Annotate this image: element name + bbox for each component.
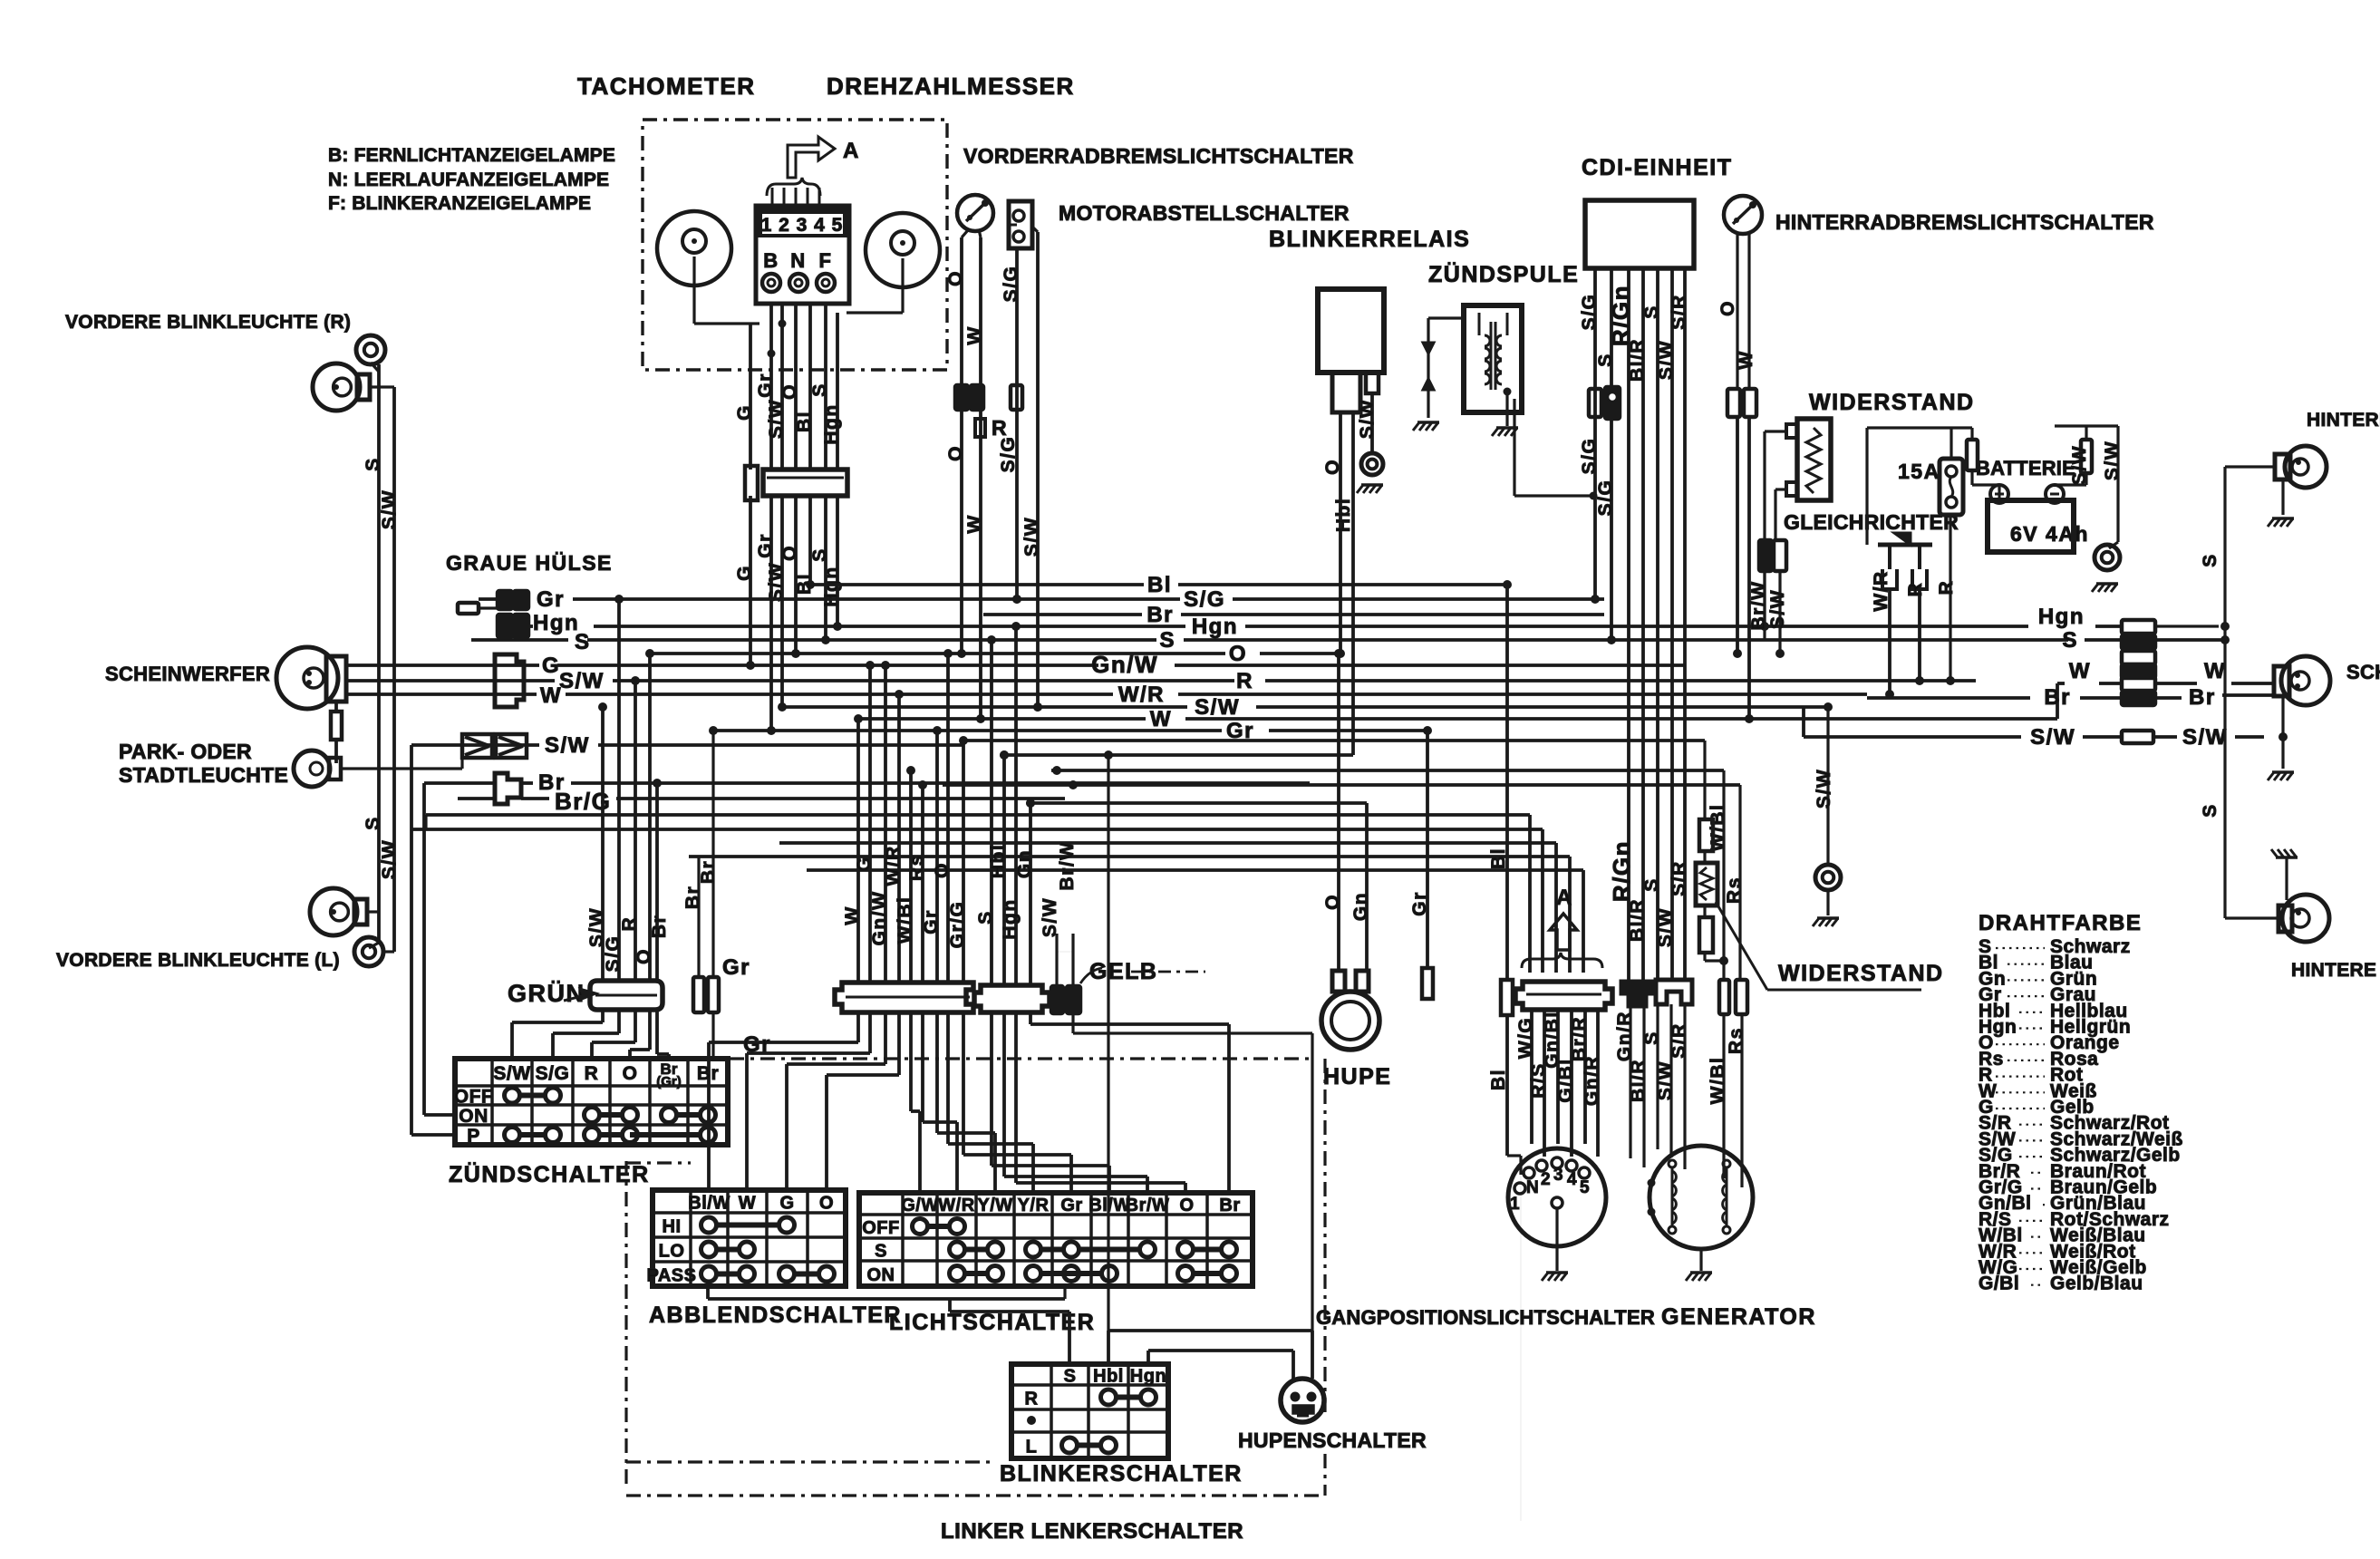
- svg-text:Hgn: Hgn: [1000, 898, 1021, 939]
- svg-text:R/Gn: R/Gn: [1608, 840, 1635, 902]
- svg-text:O: O: [1229, 642, 1247, 666]
- svg-text:R: R: [585, 1063, 599, 1084]
- svg-text:W: W: [739, 1194, 756, 1214]
- svg-text:Br: Br: [682, 886, 703, 909]
- svg-text:S/G: S/G: [998, 436, 1019, 473]
- svg-text:O: O: [1179, 1196, 1194, 1215]
- svg-text:O: O: [623, 1063, 638, 1084]
- svg-text:1: 1: [1510, 1195, 1520, 1214]
- svg-text:N: N: [790, 249, 806, 272]
- svg-text:S/W: S/W: [2182, 725, 2228, 750]
- svg-text:Gr: Gr: [1060, 1196, 1082, 1215]
- svg-text:Hgn: Hgn: [821, 403, 842, 444]
- svg-text:G: G: [779, 1194, 794, 1214]
- svg-text:O: O: [1717, 300, 1738, 316]
- svg-text:DRAHTFARBE: DRAHTFARBE: [1978, 911, 2142, 935]
- svg-text:G: G: [734, 404, 755, 421]
- svg-text:S/R: S/R: [1669, 860, 1689, 896]
- svg-text:Br/W: Br/W: [1057, 841, 1078, 891]
- svg-text:Gn/W: Gn/W: [1091, 651, 1158, 678]
- svg-text:SCHE: SCHE: [2346, 661, 2380, 683]
- svg-text:S: S: [809, 547, 830, 562]
- svg-text:G: G: [854, 856, 875, 872]
- svg-text:Gr: Gr: [921, 909, 942, 934]
- svg-text:S: S: [1641, 305, 1662, 319]
- svg-text:F: BLINKERANZEIGELAMPE: F: BLINKERANZEIGELAMPE: [328, 193, 591, 214]
- svg-text:S: S: [363, 816, 383, 830]
- svg-text:Y/R: Y/R: [1018, 1196, 1050, 1215]
- svg-text:Gr: Gr: [755, 373, 776, 398]
- svg-text:2: 2: [1541, 1170, 1551, 1189]
- svg-text:WIDERSTAND: WIDERSTAND: [1809, 390, 1975, 415]
- svg-text:Gr: Gr: [755, 533, 776, 558]
- svg-text:4: 4: [1567, 1170, 1577, 1189]
- svg-text:R: R: [1025, 1390, 1039, 1409]
- svg-text:S/W: S/W: [493, 1063, 530, 1084]
- svg-text:R: R: [619, 916, 640, 932]
- svg-text:S/W: S/W: [2069, 445, 2090, 485]
- svg-text:3: 3: [1553, 1166, 1563, 1185]
- svg-text:Bl: Bl: [794, 411, 815, 432]
- svg-text:S: S: [2062, 628, 2078, 653]
- svg-text:O: O: [945, 445, 966, 461]
- svg-text:G: G: [734, 565, 755, 581]
- svg-text:O: O: [1322, 894, 1343, 910]
- svg-text:G/W: G/W: [901, 1196, 939, 1215]
- svg-text:BLINKERSCHALTER: BLINKERSCHALTER: [1000, 1461, 1243, 1486]
- svg-text:S: S: [2200, 803, 2220, 818]
- svg-text:GELB: GELB: [1089, 959, 1157, 984]
- svg-text:HINTERRADBREMSLICHTSCHALTER: HINTERRADBREMSLICHTSCHALTER: [1775, 210, 2154, 234]
- svg-text:Br: Br: [1146, 603, 1174, 627]
- svg-text:Bl/R: Bl/R: [1627, 338, 1648, 382]
- svg-text:S: S: [875, 1242, 887, 1262]
- svg-text:S: S: [1595, 353, 1616, 367]
- svg-text:Gr: Gr: [743, 1032, 771, 1057]
- svg-text:HI: HI: [663, 1217, 682, 1237]
- svg-text:Gn/R: Gn/R: [1582, 1055, 1602, 1106]
- svg-text:ZÜNDSCHALTER: ZÜNDSCHALTER: [449, 1161, 650, 1187]
- svg-text:VORDERRADBREMSLICHTSCHALTER: VORDERRADBREMSLICHTSCHALTER: [963, 144, 1354, 168]
- svg-text:Gr: Gr: [722, 955, 750, 980]
- svg-text:W/R: W/R: [1871, 570, 1891, 611]
- svg-text:GENERATOR: GENERATOR: [1661, 1304, 1816, 1330]
- svg-text:A: A: [1556, 886, 1573, 910]
- svg-text:S/G: S/G: [603, 935, 624, 973]
- svg-text:A: A: [843, 139, 860, 163]
- svg-text:GRÜN: GRÜN: [508, 980, 585, 1007]
- svg-text:PASS: PASS: [647, 1266, 697, 1286]
- svg-text:S/W: S/W: [545, 733, 590, 758]
- svg-text:ABBLENDSCHALTER: ABBLENDSCHALTER: [649, 1302, 902, 1328]
- svg-text:Br/R: Br/R: [1569, 1016, 1590, 1061]
- svg-text:Gr/G: Gr/G: [947, 901, 968, 949]
- svg-text:O: O: [1322, 459, 1343, 475]
- svg-text:Bl/R: Bl/R: [1627, 898, 1648, 942]
- svg-text:S/W: S/W: [379, 839, 400, 879]
- svg-text:MOTORABSTELLSCHALTER: MOTORABSTELLSCHALTER: [1059, 201, 1350, 225]
- svg-text:OFF: OFF: [862, 1218, 900, 1238]
- svg-text:Hgn: Hgn: [2038, 605, 2085, 629]
- svg-text:CDI-EINHEIT: CDI-EINHEIT: [1582, 155, 1733, 180]
- svg-text:Rs: Rs: [1726, 1027, 1746, 1054]
- svg-text:ON: ON: [867, 1265, 895, 1285]
- svg-text:S/G: S/G: [1579, 294, 1600, 331]
- svg-text:S/W: S/W: [1021, 517, 1042, 557]
- svg-text:S: S: [975, 910, 996, 925]
- svg-text:B: B: [763, 249, 779, 272]
- svg-text:VORDERE BLINKLEUCHTE (L): VORDERE BLINKLEUCHTE (L): [56, 950, 340, 971]
- svg-text:S/G: S/G: [1184, 587, 1225, 612]
- svg-text:S/W: S/W: [1357, 399, 1378, 439]
- svg-text:Hbl: Hbl: [1093, 1367, 1124, 1387]
- svg-text:Gr: Gr: [1409, 891, 1430, 916]
- svg-text:S/W: S/W: [1195, 695, 1240, 720]
- svg-text:W: W: [964, 325, 985, 344]
- svg-text:Hgn: Hgn: [1130, 1367, 1166, 1387]
- svg-text:W: W: [1150, 707, 1172, 731]
- svg-text:1 2 3 4 5: 1 2 3 4 5: [761, 215, 844, 236]
- svg-text:G/Bl: G/Bl: [1978, 1273, 2019, 1294]
- svg-text:ON: ON: [459, 1106, 489, 1127]
- svg-text:S/W: S/W: [379, 489, 400, 529]
- svg-text:L: L: [1026, 1438, 1038, 1457]
- svg-text:ZÜNDSPULE: ZÜNDSPULE: [1428, 261, 1579, 287]
- svg-text:Br: Br: [2189, 685, 2216, 710]
- svg-text:Gn/R: Gn/R: [1614, 1011, 1635, 1061]
- svg-text:BLINKERRELAIS: BLINKERRELAIS: [1269, 227, 1470, 252]
- svg-text:W: W: [842, 905, 863, 925]
- svg-text:S/W: S/W: [766, 399, 787, 439]
- svg-text:Hbl: Hbl: [988, 844, 1009, 878]
- svg-text:W: W: [2069, 659, 2091, 683]
- svg-text:15A: 15A: [1898, 460, 1940, 483]
- svg-text:S/R: S/R: [1669, 1022, 1689, 1059]
- svg-text:R/Gn: R/Gn: [1607, 285, 1634, 346]
- svg-text:P: P: [467, 1126, 480, 1147]
- svg-text:S/G: S/G: [536, 1063, 570, 1084]
- svg-text:Br: Br: [698, 860, 719, 884]
- svg-text:TACHOMETER: TACHOMETER: [577, 73, 756, 100]
- svg-text:Bl: Bl: [1488, 847, 1509, 869]
- svg-text:W/R: W/R: [883, 845, 904, 886]
- svg-text:Bl/R: Bl/R: [1628, 1059, 1649, 1102]
- svg-text:Br: Br: [2044, 685, 2071, 710]
- svg-text:O: O: [932, 862, 953, 878]
- svg-text:O: O: [634, 948, 654, 964]
- svg-text:6V 4Ah: 6V 4Ah: [2010, 522, 2089, 546]
- svg-text:R: R: [1905, 582, 1926, 597]
- svg-text:Br/W: Br/W: [1748, 581, 1769, 631]
- svg-text:W: W: [1736, 350, 1756, 369]
- svg-text:S: S: [363, 457, 383, 471]
- svg-text:O: O: [779, 545, 800, 561]
- svg-text:S/G: S/G: [1001, 266, 1021, 303]
- svg-text:B: FERNLICHTANZEIGELAMPE: B: FERNLICHTANZEIGELAMPE: [328, 145, 615, 166]
- svg-text:N: N: [1526, 1178, 1539, 1197]
- svg-text:S/W: S/W: [1655, 1060, 1676, 1100]
- svg-text:Br/W: Br/W: [1126, 1196, 1170, 1215]
- svg-text:BATTERIE: BATTERIE: [1976, 457, 2075, 479]
- svg-text:GANGPOSITIONSLICHTSCHALTER: GANGPOSITIONSLICHTSCHALTER: [1316, 1306, 1655, 1329]
- svg-text:HINTERE: HINTERE: [2291, 960, 2376, 981]
- svg-text:W/G: W/G: [1515, 1017, 1536, 1060]
- svg-text:S/W: S/W: [2102, 441, 2123, 480]
- svg-text:S/W: S/W: [1814, 769, 1834, 809]
- svg-text:S/R: S/R: [1669, 294, 1689, 330]
- svg-text:O: O: [779, 383, 800, 400]
- svg-text:F: F: [819, 249, 833, 272]
- svg-text:OFF: OFF: [454, 1087, 494, 1108]
- svg-text:PARK- ODER: PARK- ODER: [119, 740, 252, 763]
- svg-text:S/W: S/W: [766, 562, 787, 602]
- svg-text:DREHZAHLMESSER: DREHZAHLMESSER: [827, 73, 1075, 100]
- svg-text:Gr: Gr: [537, 587, 565, 612]
- svg-text:HUPE: HUPE: [1323, 1064, 1391, 1089]
- svg-text:Gn: Gn: [1350, 892, 1371, 921]
- svg-text:Hbl: Hbl: [1333, 498, 1354, 532]
- svg-text:W/R: W/R: [1118, 683, 1165, 707]
- svg-text:S: S: [1159, 628, 1175, 653]
- svg-text:S/W: S/W: [2030, 725, 2075, 750]
- svg-text:SCHEINWERFER: SCHEINWERFER: [105, 663, 270, 685]
- svg-text:W: W: [540, 683, 562, 708]
- svg-text:S: S: [1064, 1367, 1077, 1387]
- svg-text:Y/W: Y/W: [977, 1196, 1012, 1215]
- svg-text:S: S: [809, 382, 830, 397]
- svg-text:R: R: [1936, 580, 1957, 596]
- svg-text:VORDERE BLINKLEUCHTE (R): VORDERE BLINKLEUCHTE (R): [65, 312, 351, 333]
- svg-text:G/Bl: G/Bl: [1555, 1058, 1576, 1102]
- svg-text:Br: Br: [1219, 1196, 1240, 1215]
- svg-text:Hgn: Hgn: [1192, 615, 1238, 639]
- svg-text:Gn/W: Gn/W: [869, 891, 890, 946]
- svg-text:Bl: Bl: [1147, 573, 1172, 597]
- svg-text:S: S: [1641, 1031, 1662, 1045]
- svg-text:LINKER LENKERSCHALTER: LINKER LENKERSCHALTER: [941, 1519, 1243, 1544]
- svg-text:LICHTSCHALTER: LICHTSCHALTER: [889, 1310, 1095, 1335]
- svg-text:Bl: Bl: [1488, 1069, 1509, 1090]
- svg-text:S/W: S/W: [1040, 897, 1060, 937]
- svg-text:Gelb/Blau: Gelb/Blau: [2050, 1273, 2143, 1294]
- svg-text:S/W: S/W: [559, 669, 605, 693]
- svg-text:HUPENSCHALTER: HUPENSCHALTER: [1238, 1428, 1427, 1452]
- svg-text:W: W: [2204, 659, 2226, 683]
- svg-text:WIDERSTAND: WIDERSTAND: [1778, 961, 1944, 986]
- svg-text:S: S: [1641, 877, 1662, 892]
- svg-text:S: S: [575, 630, 591, 654]
- svg-text:Bl/W: Bl/W: [688, 1194, 730, 1214]
- svg-text:HINTERE B: HINTERE B: [2307, 410, 2380, 431]
- svg-text:R: R: [1236, 669, 1253, 693]
- svg-text:S/G: S/G: [1579, 438, 1600, 475]
- svg-text:W/Bl: W/Bl: [1708, 1057, 1728, 1105]
- svg-text:N: LEERLAUFANZEIGELAMPE: N: LEERLAUFANZEIGELAMPE: [328, 169, 609, 190]
- svg-text:(Gr): (Gr): [656, 1074, 682, 1089]
- svg-text:W: W: [964, 514, 985, 533]
- svg-text:Br: Br: [697, 1063, 719, 1084]
- svg-text:LO: LO: [659, 1242, 685, 1262]
- svg-text:GRAUE HÜLSE: GRAUE HÜLSE: [446, 551, 613, 575]
- svg-text:Rs: Rs: [906, 854, 927, 881]
- svg-text:S/W: S/W: [1767, 589, 1788, 629]
- svg-text:S/W: S/W: [1655, 907, 1676, 947]
- svg-text:W/Bl: W/Bl: [895, 896, 915, 944]
- svg-text:GLEICHRICHTER: GLEICHRICHTER: [1784, 510, 1959, 534]
- svg-text:O: O: [819, 1194, 834, 1214]
- svg-text:S: S: [2200, 553, 2220, 567]
- svg-text:S/G: S/G: [1595, 479, 1616, 517]
- svg-text:Gn: Gn: [1014, 849, 1035, 878]
- svg-text:S/W: S/W: [1656, 340, 1677, 380]
- svg-text:W/R: W/R: [938, 1196, 974, 1215]
- svg-text:Hgn: Hgn: [533, 611, 579, 635]
- svg-text:O: O: [945, 270, 966, 286]
- svg-text:5: 5: [1580, 1178, 1590, 1197]
- svg-text:Br: Br: [649, 915, 670, 938]
- svg-text:STADTLEUCHTE: STADTLEUCHTE: [119, 763, 288, 787]
